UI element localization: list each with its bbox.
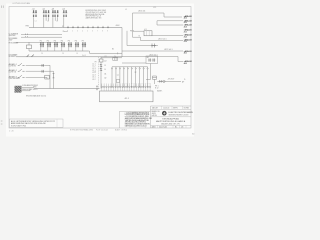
fuse-switch Q2 xyxy=(42,9,49,17)
wire branch 1 xyxy=(26,64,42,66)
terminal circles row xyxy=(101,86,151,87)
wire N rail xyxy=(21,34,62,36)
svg-text:1.5: 1.5 xyxy=(76,53,78,55)
fuse-switch Q4 xyxy=(62,9,67,17)
wire K1 to ref tag xyxy=(152,35,183,37)
svg-text:F5: F5 xyxy=(68,40,70,42)
fuse row F2 xyxy=(47,40,51,51)
fuse row F5 xyxy=(68,40,72,51)
svg-text:N SCHIENE: N SCHIENE xyxy=(9,54,18,56)
svg-text:-W13 3x1.5: -W13 3x1.5 xyxy=(149,55,158,57)
bus D xyxy=(34,88,100,90)
fuse-switch Q3 xyxy=(51,9,58,17)
svg-text:L1.1: L1.1 xyxy=(92,63,95,65)
ribbon wire 9 xyxy=(143,67,144,88)
wire earth lower link xyxy=(22,89,31,91)
svg-text:L1: L1 xyxy=(35,20,37,22)
bottom cells xyxy=(152,125,184,128)
border frame xyxy=(9,7,191,129)
svg-text:-K2: -K2 xyxy=(104,61,107,63)
svg-text:LICHT OG: LICHT OG xyxy=(9,72,17,74)
svg-text:F3: F3 xyxy=(54,40,56,42)
dashed link wire xyxy=(98,57,100,89)
terminal number ticks xyxy=(102,84,150,86)
wire elbow to N line xyxy=(133,37,141,40)
ribbon wire 7 xyxy=(135,67,136,88)
ribbon wire 2 xyxy=(115,67,116,88)
side terminal b xyxy=(96,89,97,90)
contact K2.1 xyxy=(100,64,102,66)
terminal strip X1 outline xyxy=(100,91,154,102)
fuse E3 vertical xyxy=(53,74,55,78)
N bus wire xyxy=(90,52,123,54)
svg-text:HAUPTVERTEILUNG EG HAUS A: HAUPTVERTEILUNG EG HAUS A xyxy=(156,120,186,123)
bus C xyxy=(16,56,122,58)
svg-text:L3.2: L3.2 xyxy=(92,79,95,81)
wire drop Q4 xyxy=(63,17,65,27)
bus B xyxy=(29,50,88,52)
SHEET xyxy=(6,4,194,137)
svg-text:/5: /5 xyxy=(184,79,185,81)
title block outline xyxy=(120,106,192,128)
sensor T1 xyxy=(153,76,157,79)
wire branch 1b xyxy=(45,64,50,66)
svg-text:PE SCHIENE: PE SCHIENE xyxy=(9,42,19,44)
revision table rows xyxy=(125,111,153,127)
svg-text:F4: F4 xyxy=(61,40,63,42)
svg-text:F7: F7 xyxy=(82,40,84,42)
svg-text:N 12: N 12 xyxy=(155,87,158,89)
svg-text:-K1: -K1 xyxy=(144,29,147,31)
tick labels under bus A xyxy=(67,30,108,32)
wire branch 2 xyxy=(26,70,42,72)
fuse row F7 xyxy=(82,40,86,51)
svg-text:13: 13 xyxy=(104,65,106,67)
svg-text:A3: A3 xyxy=(192,132,194,135)
svg-text:F6: F6 xyxy=(75,40,77,42)
wire to sheet ref xyxy=(133,13,183,37)
breaker Q12 xyxy=(18,69,25,71)
svg-text:14: 14 xyxy=(104,69,106,71)
svg-text:L1.3: L1.3 xyxy=(92,68,95,70)
fuse row F3 xyxy=(54,40,58,51)
svg-text:DATEI 04117-01.DWG 12.05.0 4: DATEI 04117-01.DWG 12.05.0 4 xyxy=(125,124,147,127)
vertical feeder wire xyxy=(121,28,123,58)
switch S1 xyxy=(27,55,34,57)
wire cross link xyxy=(101,57,122,59)
margin marks xyxy=(1,121,3,124)
svg-text:400/230V: 400/230V xyxy=(9,35,17,37)
fuse F9 xyxy=(151,44,156,48)
svg-text:PE: PE xyxy=(95,61,97,63)
wire T1 drop xyxy=(154,80,156,85)
wire PE feeder xyxy=(16,41,62,43)
svg-text:0.27561.6 E-PLAN: 0.27561.6 E-PLAN xyxy=(13,2,31,5)
svg-text:ISOLIERT: ISOLIERT xyxy=(9,56,16,58)
relay box K2 xyxy=(100,59,103,62)
svg-text:F2: F2 xyxy=(47,40,49,42)
wire earth to bus D xyxy=(22,86,35,88)
wire down leg 1 xyxy=(49,65,51,88)
terminal stubs into block xyxy=(102,88,150,92)
terminal numbers xyxy=(101,83,151,85)
aux output wire xyxy=(157,80,181,82)
rail connector marks xyxy=(26,34,28,38)
side terminal a xyxy=(96,86,97,87)
svg-text:E:\PROJEKT\SCHEMA1.DWG: E:\PROJEKT\SCHEMA1.DWG xyxy=(70,128,94,131)
inline device box xyxy=(116,80,119,83)
ribbon header wire xyxy=(112,66,148,68)
mid divider line xyxy=(151,116,192,118)
svg-text:PE 1: PE 1 xyxy=(155,85,159,87)
svg-text:PLOT: 12.05.04: PLOT: 12.05.04 xyxy=(96,129,108,131)
block right label xyxy=(155,85,163,92)
wire down leg 2 with fuse xyxy=(53,71,55,88)
svg-text:LICHT EG: LICHT EG xyxy=(9,66,17,68)
wire sub-feed xyxy=(100,57,102,89)
junction link wire xyxy=(122,62,146,64)
contact K2.2 xyxy=(100,68,102,70)
node label block 1 xyxy=(9,33,18,41)
contactor K1 xyxy=(144,29,152,36)
svg-text:-B1: -B1 xyxy=(147,57,150,59)
svg-text:2.5: 2.5 xyxy=(41,53,43,55)
svg-text:ZAEHLERPLATZ EG: ZAEHLERPLATZ EG xyxy=(86,16,103,19)
svg-text:X1: X1 xyxy=(62,26,64,28)
fuse row F6 xyxy=(75,40,79,51)
left small cells xyxy=(152,110,160,117)
meter box P1 xyxy=(27,42,32,51)
wire name stack xyxy=(92,63,95,80)
svg-text:2.5: 2.5 xyxy=(62,53,64,55)
svg-text:MU: MU xyxy=(158,111,160,113)
wire to tag 7 xyxy=(122,50,183,52)
svg-text:F1: F1 xyxy=(40,40,42,42)
wire into K1 xyxy=(133,30,144,32)
bus A xyxy=(29,27,122,29)
branch label 2 xyxy=(9,69,17,74)
ribbon wire 10 xyxy=(147,67,148,88)
svg-text:N SCHIENE: N SCHIENE xyxy=(9,38,18,40)
fuse E2 xyxy=(41,70,44,73)
svg-text:L2.3: L2.3 xyxy=(92,74,95,76)
header row line xyxy=(151,108,192,110)
svg-text:ELEKTRO MUSTERMANN: ELEKTRO MUSTERMANN xyxy=(169,111,194,114)
fuse E1 xyxy=(41,64,44,67)
svg-text:1 : 20: 1 : 20 xyxy=(9,131,14,133)
wire branch 2b xyxy=(45,70,54,72)
plug symbol X9 xyxy=(159,80,165,83)
bus A terminal ticks xyxy=(68,26,109,28)
svg-text:GEPR.: GEPR. xyxy=(152,113,157,115)
svg-text:L3: L3 xyxy=(56,20,58,22)
N bus tick xyxy=(117,52,119,54)
junction box J1 xyxy=(146,56,158,64)
svg-text:04-117-001: 04-117-001 xyxy=(159,126,167,128)
svg-text:L3.1: L3.1 xyxy=(92,77,95,79)
svg-text:1/4: 1/4 xyxy=(181,126,183,128)
ribbon wire 8 xyxy=(139,67,140,88)
wire drop Q3 xyxy=(53,17,58,27)
revision table column line xyxy=(130,111,146,128)
wire to tag 6 xyxy=(141,40,184,42)
svg-text:-X2: -X2 xyxy=(104,56,107,58)
svg-text:gn: gn xyxy=(135,72,137,74)
svg-text:-X9 230V: -X9 230V xyxy=(168,78,176,80)
wire drop Q1 xyxy=(33,17,35,27)
svg-text:STECKDOSEN: STECKDOSEN xyxy=(9,78,21,80)
ribbon wire 5 xyxy=(127,67,128,88)
svg-text:-W10 4x6: -W10 4x6 xyxy=(138,10,145,12)
earth electrode block xyxy=(15,86,22,93)
vertical wire N xyxy=(126,31,128,46)
svg-text:-X1.1: -X1.1 xyxy=(124,98,130,100)
wire to tag 8 xyxy=(122,57,183,62)
notes box xyxy=(10,119,64,127)
breaker Q13 xyxy=(18,75,25,77)
wire J1 drop xyxy=(146,64,151,80)
wire branch to tag 2 xyxy=(157,21,183,25)
fuse row F1 xyxy=(40,40,44,51)
branch label 3 xyxy=(9,75,21,80)
header cell dividers xyxy=(162,106,183,109)
svg-text:SCHUTZART IP40: SCHUTZART IP40 xyxy=(11,125,26,128)
wire branch 3 xyxy=(26,76,47,78)
svg-text:L2: L2 xyxy=(47,20,49,22)
wire down leg 3 xyxy=(46,77,48,79)
wire with fuse F9 xyxy=(127,45,158,47)
title divider xyxy=(151,124,192,126)
ribbon wire 1 xyxy=(111,67,112,88)
svg-text:BLATT 1 VON 4: BLATT 1 VON 4 xyxy=(115,128,127,131)
breaker Q11 xyxy=(18,63,25,65)
wire bus B to bus C xyxy=(88,51,90,53)
svg-text:L1 SCHIENE: L1 SCHIENE xyxy=(9,33,18,35)
svg-text:L2.1: L2.1 xyxy=(92,70,95,72)
svg-text:35mm2: 35mm2 xyxy=(63,31,68,33)
svg-text:N1: N1 xyxy=(112,48,114,50)
company logo xyxy=(162,111,167,116)
notes text block xyxy=(86,10,107,19)
wire PE rail xyxy=(21,36,62,38)
fuse row F4 xyxy=(61,40,65,51)
branch label 1 xyxy=(9,63,17,68)
meter box P2 xyxy=(45,75,49,79)
ribbon wire 6 xyxy=(131,67,132,88)
svg-text:-W11 5x2.5: -W11 5x2.5 xyxy=(158,38,167,40)
svg-text:-W12 3x1.5: -W12 3x1.5 xyxy=(164,49,173,51)
notes box divider xyxy=(56,119,58,127)
ribbon wire 3 xyxy=(119,67,120,88)
svg-text:L1.2: L1.2 xyxy=(92,66,95,68)
svg-text:L2.2: L2.2 xyxy=(92,72,95,74)
header cells row xyxy=(152,107,189,110)
svg-text:3x1.5: 3x1.5 xyxy=(82,55,86,57)
svg-text:INGENIEURBUERO D-80333: INGENIEURBUERO D-80333 xyxy=(169,114,189,116)
fuse-switch Q1 xyxy=(32,9,37,17)
bottom cell dividers xyxy=(158,125,187,128)
svg-text:L1: L1 xyxy=(125,9,127,11)
ribbon wire 4 xyxy=(123,67,124,88)
terminal group on bus C xyxy=(113,57,118,60)
svg-text:L1.1: L1.1 xyxy=(153,7,156,9)
fold mark xyxy=(2,6,4,8)
wire drop Q2 xyxy=(44,17,49,27)
